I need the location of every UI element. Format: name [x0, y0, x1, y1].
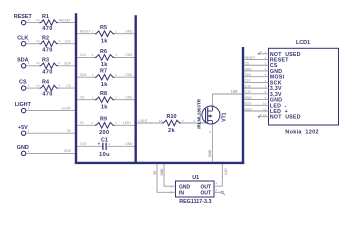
wire CLK pin to R2: [26, 43, 40, 45]
svg-text:R7: R7: [100, 69, 107, 75]
svg-text:1A: 1A: [159, 119, 163, 123]
connector pin GND: [17, 145, 30, 156]
svg-text:470: 470: [42, 92, 52, 98]
svg-text:CS: CS: [66, 84, 70, 88]
wire left bus to R7, net SDA: [77, 73, 95, 77]
svg-text:R1: R1: [42, 14, 49, 20]
wire left bus to R5, net RESET: [77, 30, 95, 34]
resistor R4: [36, 80, 61, 98]
wire R1 to left bus, net RESET: [58, 18, 75, 22]
transistor VT1 IRLML2803TR (N-MOSFET): [196, 98, 227, 129]
wire +5V pin to left bus, net 5V: [26, 129, 75, 133]
wire bottom bus to U1 IN, net 5V: [153, 164, 175, 194]
svg-text:U1: U1: [192, 175, 199, 181]
LCD1 pin 3 (CS): [244, 62, 278, 70]
svg-text:R9: R9: [100, 117, 107, 123]
connector pin CLK: [17, 35, 29, 46]
svg-text:LIGHT: LIGHT: [62, 106, 71, 110]
svg-text:GND: GND: [245, 67, 253, 71]
svg-text:CS: CS: [80, 96, 84, 100]
svg-text:1A: 1A: [36, 18, 40, 22]
IC U1 REG1117-3.3 voltage regulator: [176, 175, 215, 205]
wire CS pin to R4: [26, 87, 40, 89]
svg-text:NOT USED: NOT USED: [270, 115, 301, 121]
wire R5 to middle bus, net GND: [115, 30, 135, 34]
connector pin +5V: [18, 125, 30, 136]
LCD1 pin 8 (3,3V): [244, 90, 282, 98]
svg-text:1: 1: [28, 18, 30, 22]
svg-text:VT1: VT1: [221, 112, 227, 121]
svg-text:GND: GND: [64, 149, 72, 153]
svg-text:CS: CS: [19, 80, 27, 86]
resistor R3: [36, 57, 61, 75]
wire U1 OUT(4) to bottom bus, net 3.3V: [214, 164, 228, 186]
svg-text:10u: 10u: [99, 152, 110, 158]
svg-text:GND: GND: [125, 30, 133, 34]
IC LCD1 (Nokia 1202 display): [269, 40, 339, 135]
wire R10 to VT1 gate: [181, 119, 206, 123]
svg-text:GND: GND: [208, 149, 212, 157]
svg-text:1: 1: [28, 61, 30, 65]
svg-text:RESET: RESET: [245, 56, 256, 60]
wire left bus to R6, net CLK: [77, 53, 95, 57]
svg-text:1: 1: [28, 39, 30, 43]
svg-text:GND: GND: [245, 96, 253, 100]
resistor R9: [95, 117, 115, 136]
svg-text:C1: C1: [101, 137, 108, 143]
svg-text:1: 1: [28, 149, 30, 153]
svg-text:470: 470: [42, 26, 52, 32]
wire LIGHT pin to left bus, net LIGHT: [26, 106, 75, 110]
wire SDA pin to R3: [26, 65, 40, 67]
wire R3 to left bus, net SDA: [58, 62, 75, 66]
LCD1 pin 2 (RESET): [244, 56, 289, 64]
svg-text:3,3V: 3,3V: [245, 90, 252, 94]
bus: middle vertical rail: [134, 15, 136, 163]
LCD1 pin 4 (GND): [244, 67, 282, 75]
svg-text:3,3V: 3,3V: [245, 84, 252, 88]
svg-text:LCD1: LCD1: [296, 40, 310, 46]
svg-text:R2: R2: [42, 35, 49, 41]
wire R2 to left bus, net CLK: [58, 40, 75, 44]
svg-text:LED+: LED+: [123, 121, 131, 125]
connector pin LIGHT: [15, 102, 32, 113]
svg-text:SDA: SDA: [64, 62, 71, 66]
LCD1 pin 6 (SCK): [244, 79, 282, 87]
svg-text:GND: GND: [125, 53, 133, 57]
svg-text:R8: R8: [100, 91, 107, 97]
bus: right vertical rail: [242, 47, 244, 164]
svg-text:R3: R3: [42, 57, 49, 63]
svg-text:LED-: LED-: [231, 90, 238, 94]
svg-text:200: 200: [99, 130, 109, 136]
wire VT1 drain to right bus, net LED-: [211, 90, 242, 106]
resistor R10: [162, 114, 181, 134]
svg-text:1A: 1A: [36, 61, 40, 65]
wire GND pin to left bus, net GND: [26, 149, 75, 153]
LCD1 pin 5 (MOSI): [244, 73, 285, 81]
LCD1 pin 7 (3,3V): [244, 84, 282, 92]
svg-text:1: 1: [28, 84, 30, 88]
svg-text:GND: GND: [160, 168, 164, 176]
connector pin SDA: [17, 57, 29, 68]
svg-text:470: 470: [42, 69, 52, 75]
wire R4 to left bus, net CS: [58, 84, 75, 88]
svg-text:SDA: SDA: [245, 73, 252, 77]
svg-text:R4: R4: [42, 80, 49, 86]
wire middle bus to R10, net LIGHT: [137, 119, 162, 123]
LCD1 pin 11 (LED&#160;&#160;+): [244, 107, 288, 115]
LCD1 pin 10 (LED&#160;&#160;-): [244, 102, 287, 110]
svg-text:IN: IN: [179, 190, 184, 196]
svg-text:2k: 2k: [168, 128, 175, 134]
svg-text:GND: GND: [179, 184, 191, 190]
svg-text:OUT: OUT: [200, 184, 211, 190]
svg-text:1A: 1A: [36, 84, 40, 88]
resistor R2: [36, 35, 61, 53]
connector pin RESET: [14, 14, 33, 25]
svg-text:3,3V: 3,3V: [80, 142, 87, 146]
LCD1 pin 9 (GND): [244, 96, 282, 104]
bus: bottom horizontal rail: [75, 162, 244, 164]
svg-text:1: 1: [28, 106, 30, 110]
wire VT1 source to bottom bus, net GND: [208, 124, 212, 162]
wire RESET pin to R1: [26, 22, 40, 24]
wire R9 to middle bus, net LED+: [115, 121, 135, 125]
svg-text:1k: 1k: [101, 38, 108, 44]
capacitor C1 (polarized): [98, 137, 110, 158]
svg-text:LIGHT: LIGHT: [138, 119, 147, 123]
svg-text:1k: 1k: [101, 82, 108, 88]
wire R6 to middle bus, net GND: [115, 53, 135, 57]
svg-text:CLK: CLK: [80, 53, 87, 57]
svg-text:R5: R5: [100, 25, 107, 31]
wire bottom bus to U1 GND, net GND: [160, 164, 175, 188]
svg-text:LED-: LED-: [245, 102, 252, 106]
svg-text:GND: GND: [125, 96, 133, 100]
resistor R7: [95, 69, 115, 88]
svg-text:IRLML2803TR: IRLML2803TR: [196, 98, 201, 129]
svg-text:RESET: RESET: [80, 30, 91, 34]
LCD1 pin 1 (NOT&#160;&#160;USED): [258, 50, 301, 58]
svg-text:GND: GND: [125, 142, 133, 146]
resistor R5: [95, 25, 115, 44]
svg-text:1k: 1k: [101, 104, 108, 110]
svg-text:CLK: CLK: [65, 40, 72, 44]
svg-text:1A: 1A: [36, 39, 40, 43]
svg-text:LED+: LED+: [245, 107, 253, 111]
U1 OUT(2) no-connect stub: [214, 188, 225, 195]
wire R7 to middle bus, net GND: [115, 73, 135, 77]
svg-text:R10: R10: [167, 114, 177, 120]
wire R8 to middle bus, net GND: [115, 96, 135, 100]
resistor R6: [95, 49, 115, 68]
svg-text:RESET: RESET: [60, 18, 71, 22]
svg-text:OUT: OUT: [200, 190, 211, 196]
wire left bus to C1, net 3.3V: [77, 142, 103, 146]
connector pin CS: [19, 80, 29, 91]
svg-text:RESET: RESET: [14, 14, 33, 20]
wire left bus to R9, net 5V: [77, 121, 95, 125]
svg-text:GND: GND: [125, 73, 133, 77]
svg-text:3,3V: 3,3V: [224, 168, 228, 175]
svg-text:1k: 1k: [101, 62, 108, 68]
resistor R1: [36, 14, 61, 32]
svg-text:Nokia 1202: Nokia 1202: [285, 129, 319, 135]
bus: left vertical rail: [75, 13, 77, 163]
svg-text:R6: R6: [100, 49, 107, 55]
svg-text:1: 1: [28, 129, 30, 133]
svg-text:CS: CS: [245, 62, 249, 66]
LCD1 pin 12 (NOT&#160;&#160;USED): [258, 113, 301, 121]
resistor R8: [95, 91, 115, 110]
svg-text:470: 470: [42, 47, 52, 53]
svg-text:REG1117-3.3: REG1117-3.3: [179, 199, 211, 205]
svg-text:SDA: SDA: [80, 73, 87, 77]
wire C1 to middle bus, net GND: [106, 142, 134, 146]
wire left bus to R8, net CS: [77, 96, 95, 100]
svg-text:CLK: CLK: [245, 79, 252, 83]
